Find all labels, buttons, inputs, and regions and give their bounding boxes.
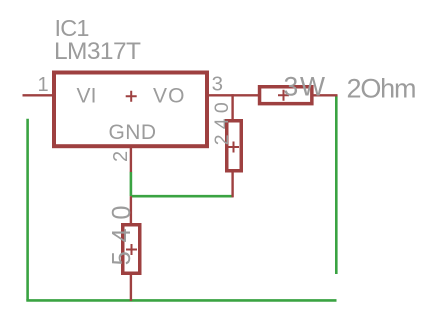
value label 540 (rotated): [108, 205, 136, 265]
net GND horizontal wire segment: [131, 195, 233, 198]
wire pin 2 GND of IC1: [130, 148, 132, 173]
label IC1 name: [55, 15, 90, 41]
svg-text:240: 240: [211, 102, 233, 145]
op-amp regulator IC1 body: [54, 73, 207, 147]
svg-text:LM317T: LM317T: [54, 38, 141, 65]
value label 240 (rotated): [211, 102, 233, 145]
pin number 1: [38, 74, 49, 96]
wire pin 3 of IC1 to R1: [208, 94, 259, 96]
label IC1 value LM317T: [54, 38, 141, 65]
svg-text:VO: VO: [153, 85, 185, 108]
origin cross of R3: [126, 244, 137, 255]
pin label VO: [153, 85, 185, 108]
resistor R3 body (540): [123, 225, 140, 274]
resistor R1 body (2Ohm 3W): [260, 87, 312, 104]
svg-text:1: 1: [38, 74, 49, 96]
net GND vertical wire segment: [130, 172, 133, 196]
pin label VI: [77, 85, 97, 108]
origin cross of IC1: [126, 91, 137, 102]
svg-text:2: 2: [110, 151, 132, 162]
wire R2 bottom pin: [231, 172, 233, 197]
wire pin 1 stub of IC1: [23, 94, 54, 96]
wire R2 top pin: [231, 94, 233, 120]
svg-text:3: 3: [212, 72, 223, 95]
origin cross of R2: [228, 142, 239, 153]
wire R1 right lead: [313, 94, 338, 96]
net N$1 bottom horizontal wire: [26, 299, 336, 302]
pin number 3: [212, 72, 223, 95]
resistor R2 body (240): [227, 121, 242, 171]
value label 3W: [284, 71, 326, 101]
svg-text:2Ohm: 2Ohm: [347, 74, 417, 104]
wire R3 bottom pin: [130, 274, 132, 301]
net N$2 right vertical wire: [335, 95, 338, 274]
pin label GND: [109, 121, 157, 144]
svg-text:540: 540: [108, 205, 136, 265]
svg-text:3W: 3W: [284, 71, 326, 101]
net N$1 left vertical wire: [26, 119, 29, 301]
wire R3 top pin: [130, 196, 132, 224]
svg-text:GND: GND: [109, 121, 157, 144]
value label 2Ohm: [347, 74, 417, 104]
svg-text:VI: VI: [77, 85, 97, 108]
pin number 2 (rotated): [110, 151, 132, 162]
origin cross of R1: [278, 90, 289, 101]
